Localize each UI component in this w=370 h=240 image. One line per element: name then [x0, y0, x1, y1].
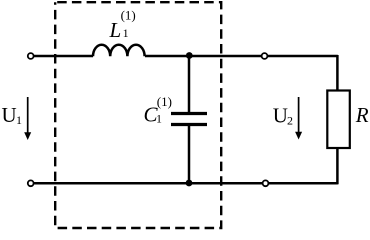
wire: capacitor upper lead	[188, 56, 191, 113]
dashed two-port network box	[55, 2, 221, 228]
node: top junction dot	[186, 52, 193, 59]
wire: right vertical upper (to resistor)	[336, 55, 339, 91]
terminal: output bottom (open circle)	[263, 180, 269, 186]
wire: right vertical lower (resistor to bottom rail)	[336, 148, 339, 184]
svg-text:2: 2	[287, 113, 293, 127]
svg-text:(1): (1)	[157, 94, 172, 109]
inductor L1	[93, 45, 145, 57]
capacitor C1 top plate	[171, 112, 207, 115]
arrow: U2 voltage arrow	[295, 97, 302, 140]
svg-text:R: R	[355, 103, 369, 127]
svg-text:U: U	[273, 103, 288, 127]
node: bottom junction dot	[186, 180, 193, 187]
label C1(1)	[144, 94, 172, 126]
wire: top left segment (input to inductor)	[32, 55, 93, 58]
label L1(1)	[109, 7, 136, 42]
svg-text:1: 1	[156, 112, 162, 126]
label U1	[2, 103, 23, 127]
svg-text:1: 1	[16, 113, 22, 127]
resistor R body	[327, 91, 350, 149]
terminal: input bottom (open circle)	[28, 180, 34, 186]
svg-text:1: 1	[123, 26, 129, 40]
terminal: output top (open circle)	[262, 53, 268, 59]
arrow: U1 voltage arrow	[24, 97, 31, 140]
terminal: input top (open circle)	[28, 53, 34, 59]
wire: bottom rail	[32, 182, 338, 185]
capacitor C1 bottom plate	[171, 123, 207, 126]
wire: capacitor lower lead	[188, 125, 191, 183]
label U2	[273, 103, 293, 127]
svg-text:U: U	[2, 103, 17, 127]
svg-text:(1): (1)	[121, 7, 136, 22]
wire: top middle segment (inductor to junction and right terminal)	[145, 55, 338, 58]
svg-text:L: L	[109, 18, 122, 42]
